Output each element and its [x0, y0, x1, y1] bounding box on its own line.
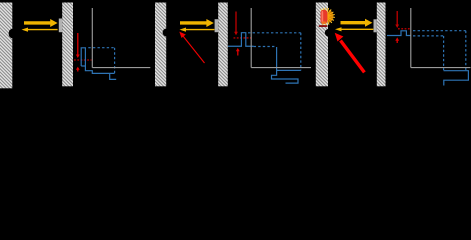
- wall W6 (right wall panel 3, hatched): [377, 3, 386, 87]
- plot1 red dashed level line: [74, 59, 92, 61]
- plot2 red dashed level line: [234, 37, 252, 39]
- plot1 red up arrow: [76, 67, 80, 72]
- blast wave arrow A5 (thick yellow, pointing right): [341, 19, 373, 27]
- reflected wave arrow A2 (thin yellow, pointing left): [22, 28, 58, 32]
- explosion burst at wall W5: [319, 8, 335, 27]
- plot1 grey pressure axis (vertical): [91, 8, 93, 68]
- plot2 blue solid pressure profile (reflected pulse): [228, 33, 254, 47]
- plot2 red up arrow: [236, 48, 240, 56]
- incident wave arrow A1 (thick yellow, pointing right): [24, 19, 58, 27]
- plot3 blue dashed levels: [413, 31, 466, 71]
- wall W1 (left wall panel 1, hatched): [0, 3, 12, 89]
- burst ray fan (yellow-orange): [321, 8, 335, 26]
- thick red annotation arrow to burst: [335, 33, 365, 73]
- notch (cavity) in wall W3: [163, 29, 171, 37]
- plot2 blue dashed levels: [248, 33, 301, 71]
- reflected wave arrow A4 (thin yellow, pointing left): [180, 28, 215, 32]
- burst core orange bottom: [321, 21, 326, 24]
- red annotation arrow to notch of W3: [179, 32, 204, 63]
- gauge tab T6 on wall W6: [374, 19, 377, 32]
- plot3 red pressure arrow (down): [395, 11, 399, 28]
- wall W5 (left wall panel 3, hatched): [316, 3, 328, 87]
- gauge tab T2 on wall W2: [59, 19, 62, 33]
- plot3 blue solid tail steps: [444, 71, 469, 86]
- plot3 red dashed level line: [398, 28, 411, 30]
- plot2 red pressure arrow (down): [234, 12, 238, 36]
- burst orange inner fan: [326, 10, 334, 23]
- wall W2 (right wall panel 1, hatched): [62, 3, 73, 87]
- gauge tab T4 on wall W4: [215, 19, 219, 32]
- plot1 grey distance axis (horizontal): [92, 67, 150, 69]
- plot3 grey distance axis (horizontal): [411, 67, 471, 69]
- reflected arrow A6 (thin yellow, pointing left): [335, 27, 373, 31]
- plot2 grey pressure axis (vertical): [250, 8, 252, 68]
- incident wave arrow A3 (thick yellow, pointing right): [180, 19, 214, 27]
- plot3 red up arrow: [395, 37, 399, 43]
- burst dark red base: [319, 25, 328, 27]
- burst red core: [321, 10, 328, 24]
- notch (cavity) in wall W5: [325, 29, 333, 37]
- wall W4 (right wall panel 2, hatched): [218, 3, 228, 87]
- plot2 grey distance axis (horizontal): [251, 67, 311, 69]
- notch (cavity) in wall W1: [9, 29, 17, 38]
- burst core highlight: [322, 11, 324, 22]
- wall W3 (left wall panel 2, hatched): [155, 3, 166, 87]
- plot3 blue solid pressure profile (weak pulse): [387, 31, 411, 36]
- plot1 blue solid pressure profile (incident pulse + tail): [81, 48, 116, 80]
- plot3 grey pressure axis (vertical): [410, 8, 412, 68]
- plot1 red pressure arrow (down): [76, 33, 80, 58]
- plot1 blue dashed reflected level: [88, 48, 114, 73]
- plot2 blue solid tail steps: [272, 47, 301, 83]
